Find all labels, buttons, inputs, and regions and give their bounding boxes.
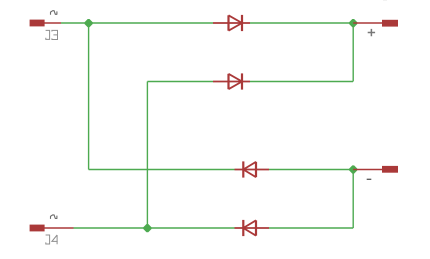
- wire row4 left: [74, 227, 235, 229]
- wire net N$1 row1 right: [250, 22, 353, 24]
- wire row2 right: [250, 81, 353, 83]
- wire vertical row2 to node D: [146, 82, 148, 229]
- junction node B: [349, 19, 357, 27]
- connector + pin name +: [368, 29, 375, 36]
- wire row2 left: [147, 81, 213, 83]
- connector J4 label J4: [46, 235, 58, 244]
- wire vertical node C to row4: [352, 170, 354, 229]
- wire row4 right: [269, 227, 353, 229]
- diode D3: [243, 161, 256, 177]
- connector J4 pin stub: [45, 227, 74, 229]
- wire row3 right: [269, 169, 353, 171]
- junction node D: [143, 224, 151, 232]
- junction node A: [85, 19, 93, 27]
- diode D2: [229, 73, 243, 89]
- connector - pad: [382, 166, 398, 173]
- connector - pin stub: [353, 169, 382, 171]
- diode D4: [243, 220, 256, 236]
- connector J3 pad: [30, 20, 45, 27]
- wire net N$1 row1 left: [61, 22, 213, 24]
- wire vertical from node A down: [88, 23, 90, 170]
- connector J4 pin name ~: [51, 215, 57, 219]
- diode D3 pin wire: [235, 169, 270, 171]
- connector + pin number mark: [383, 0, 387, 1]
- connector J3 label J3: [46, 30, 58, 39]
- connector - pin name -: [367, 178, 372, 180]
- connector + pin stub: [353, 22, 382, 24]
- junction node C: [349, 165, 357, 173]
- connector J3 pin name ~: [51, 11, 57, 15]
- diode D1 pin wire: [213, 22, 250, 24]
- wire row3 left: [89, 169, 235, 171]
- diode D1: [229, 15, 243, 31]
- connector + pad: [382, 20, 398, 27]
- wire vertical node B to row2: [352, 23, 354, 82]
- diode D4 pin wire: [235, 227, 270, 229]
- connector J3 pin stub: [45, 22, 62, 24]
- connector J4 pad: [30, 225, 45, 232]
- diode D2 pin wire: [213, 81, 250, 83]
